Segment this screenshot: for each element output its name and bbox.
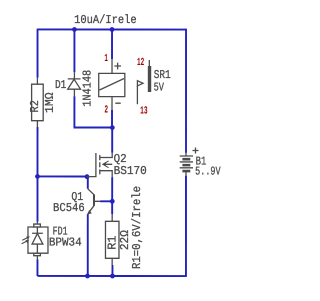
wire Q2 source down to Q1 base node and R1	[111, 177, 113, 214]
wire Q1 collector vertical	[87, 176, 89, 188]
relay coil plus sign	[114, 63, 121, 70]
svg-text:BPW34: BPW34	[49, 236, 82, 250]
node junction dot top rail coil	[110, 27, 115, 32]
node junction dot Q1 emitter bottom rail	[85, 274, 90, 279]
node junction dot gate / Q1 collector	[85, 174, 90, 179]
wire coil branch top	[111, 29, 113, 59]
svg-text:1: 1	[104, 53, 108, 65]
battery plus sign	[192, 148, 198, 154]
svg-text:BS170: BS170	[114, 164, 147, 178]
diode D1	[68, 72, 81, 96]
node junction dot Q2 source / Q1 base / R1	[110, 199, 115, 204]
node junction dot left rail gate net	[35, 174, 40, 179]
battery B1	[180, 153, 193, 176]
wire coil pin2 to node	[111, 110, 113, 128]
photodiode FD1 BPW34	[28, 222, 48, 260]
relay coil minus sign	[115, 102, 120, 104]
transistor Q1 NPN BC546	[87, 189, 100, 215]
svg-text:2: 2	[104, 104, 108, 116]
wire R1 bottom to bottom rail	[111, 265, 113, 276]
node junction dot top rail D1	[72, 27, 77, 32]
resistor R1	[105, 214, 119, 265]
wire right rail lower (battery to bottom rail)	[185, 176, 187, 277]
svg-text:12: 12	[137, 57, 144, 69]
wire D1 branch top	[73, 29, 75, 72]
wire left rail middle (R2 bottom to FD1 top)	[36, 127, 38, 222]
svg-text:5V: 5V	[154, 80, 165, 94]
transistor Q2 MOSFET BS170	[87, 153, 112, 177]
wire Q1 base horizontal	[100, 200, 112, 202]
wire top rail	[38, 28, 186, 30]
relay coil SR1 pins 1/2	[99, 59, 125, 110]
wire D1 branch bottom + horizontal to coil node	[74, 96, 112, 127]
wire gate net horizontal	[37, 175, 87, 177]
wire left rail lower (FD1 bottom to bottom rail)	[36, 259, 38, 276]
svg-text:13: 13	[140, 105, 148, 117]
svg-text:BC546: BC546	[53, 201, 85, 215]
node junction dot R1 bottom rail	[110, 274, 115, 279]
photodiode FD1 light arrow lower	[22, 240, 30, 244]
svg-text:R1=0,6V/Irele: R1=0,6V/Irele	[130, 186, 144, 269]
wire Q1 emitter down to bottom rail	[87, 214, 89, 276]
wire left rail upper (to R2)	[37, 29, 39, 78]
svg-text:D1: D1	[55, 78, 66, 92]
wire right rail upper (top rail to battery)	[185, 29, 187, 153]
svg-text:1N4148: 1N4148	[81, 70, 95, 107]
svg-text:5..9V: 5..9V	[195, 164, 221, 178]
wire bottom rail	[37, 275, 186, 277]
node junction dot D1/coil/Q2 drain	[110, 125, 115, 130]
resistor R2	[32, 78, 44, 127]
wire node to Q2 drain	[111, 128, 113, 153]
photodiode FD1 light arrow upper	[22, 236, 30, 240]
svg-text:R2: R2	[28, 100, 42, 112]
svg-text:10uA/Irele: 10uA/Irele	[74, 13, 137, 27]
svg-text:1MΩ: 1MΩ	[43, 92, 57, 113]
relay switch contact SR1	[137, 60, 149, 104]
